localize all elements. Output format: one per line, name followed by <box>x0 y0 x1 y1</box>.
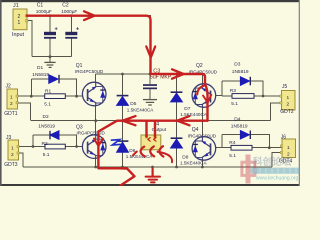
svg-text:1.5KE440CA: 1.5KE440CA <box>126 154 153 159</box>
wire red J4 pin risers <box>147 122 156 137</box>
svg-text:C2: C2 <box>62 3 69 9</box>
ground below C3 <box>143 100 157 105</box>
svg-text:Q2: Q2 <box>196 63 203 69</box>
connector J1 <box>12 3 28 38</box>
svg-text:D7: D7 <box>184 106 190 112</box>
svg-text:D8: D8 <box>182 154 188 160</box>
red arrow on mid bus right <box>177 116 190 125</box>
svg-text:IRG4PC50UD: IRG4PC50UD <box>75 69 104 74</box>
resistor R1 <box>44 89 65 108</box>
svg-text:1: 1 <box>18 20 21 26</box>
node ground tap junction <box>49 55 52 58</box>
svg-text:1.5KE440CA: 1.5KE440CA <box>180 112 207 117</box>
red arrow on mid bus left <box>123 116 136 125</box>
svg-text:R2: R2 <box>42 141 48 147</box>
wire Q2 emitter lead <box>201 107 203 121</box>
TVS diode D8 <box>171 137 208 165</box>
node C2 top junction <box>70 14 73 17</box>
svg-text:GDT3: GDT3 <box>4 162 18 168</box>
svg-text:IRG4PC50UD: IRG4PC50UD <box>77 131 106 136</box>
node Q3 emitter rail junction <box>94 166 97 169</box>
svg-text:D2: D2 <box>43 114 49 120</box>
resistor R3 <box>230 88 254 107</box>
svg-text:5.1: 5.1 <box>44 102 51 108</box>
svg-text:1000µF: 1000µF <box>36 9 52 14</box>
red arrow inside Q3 <box>94 139 103 147</box>
wire C3 top stub <box>149 74 151 84</box>
svg-text:D4: D4 <box>234 116 240 122</box>
wire C2 stubs <box>70 16 72 57</box>
svg-text:2: 2 <box>287 102 290 108</box>
svg-text:科创论坛: 科创论坛 <box>253 156 292 168</box>
svg-text:1.5KE440CA: 1.5KE440CA <box>127 108 154 113</box>
svg-text:J2: J2 <box>6 84 12 90</box>
blue annotation zigzag near D6 <box>111 140 121 145</box>
wire red top bus <box>27 16 151 74</box>
svg-text:5.1: 5.1 <box>231 101 238 107</box>
svg-text:1N5819: 1N5819 <box>38 123 55 129</box>
watermark logo kechuang <box>242 155 255 184</box>
svg-text:1N5819: 1N5819 <box>232 69 249 75</box>
node D1-R1 right junction <box>75 95 78 98</box>
wire Q3 emitter lead <box>95 158 97 167</box>
red arrow on down bus <box>146 47 155 58</box>
wire R2 to Q3 gate <box>65 146 82 148</box>
diode D4 1N5819 <box>231 116 251 139</box>
svg-text:1N5819: 1N5819 <box>32 72 49 78</box>
svg-text:1: 1 <box>287 95 290 101</box>
red arrow inside Q2 <box>203 95 211 103</box>
resistor R2 <box>42 141 66 158</box>
red arrow on top bus <box>84 11 95 20</box>
wire J6 pin 2 to bottom rail <box>272 153 282 168</box>
svg-text:Q4: Q4 <box>192 127 199 133</box>
wire ground stub bottom center <box>152 167 154 171</box>
wire Q4 emitter lead <box>201 160 203 167</box>
node C3 rail junction <box>149 73 152 76</box>
wire J3 pin 1 to R2 <box>19 146 46 148</box>
wire red mid bus to Q3 <box>98 121 207 186</box>
wire Q1 emitter lead <box>95 105 97 121</box>
red marks inside J4 <box>148 138 156 142</box>
capacitor C2 <box>61 3 80 39</box>
diode D3 1N5819 <box>232 62 251 86</box>
node D5 top rail junction <box>121 73 124 76</box>
svg-text:D5: D5 <box>130 101 136 107</box>
wire Q2 gate network <box>216 81 282 96</box>
node D1-R1 left junction <box>30 95 33 98</box>
node Q1-Q3 mid junction <box>94 119 97 122</box>
wire red rail to Q2 <box>151 74 208 121</box>
TVS diode D6 <box>117 140 154 159</box>
transistor Q1 IRG4PC50UD <box>82 82 106 106</box>
wire D7 leads <box>176 74 178 121</box>
svg-text:1: 1 <box>287 145 290 151</box>
wire D1 branch <box>31 79 76 96</box>
svg-text:R1: R1 <box>45 89 51 95</box>
node Q2-Q4 mid junction <box>201 119 204 122</box>
svg-text:R3: R3 <box>230 88 236 94</box>
connector J4 Output <box>141 122 167 150</box>
wire Q4 gate network <box>215 135 282 148</box>
sheet background <box>0 0 300 186</box>
wire D1 branch riser left <box>30 79 32 96</box>
wire Q2 collector lead <box>201 74 203 84</box>
svg-text:5uF MKP: 5uF MKP <box>150 75 172 81</box>
svg-text:D3: D3 <box>234 62 240 68</box>
node D7 top rail junction <box>175 73 178 76</box>
red arrow toward Q2 <box>172 69 184 78</box>
svg-text:J6: J6 <box>281 134 287 140</box>
node C1 top junction <box>49 14 52 17</box>
wire D6 leads <box>122 121 124 167</box>
svg-text:R4: R4 <box>229 140 235 146</box>
wire J3 pin 2 to bottom rail <box>19 153 24 167</box>
svg-text:D1: D1 <box>37 65 43 71</box>
capacitor C3 5uF MKP <box>143 68 172 89</box>
node ground rail junction <box>151 166 154 169</box>
svg-text:1N5819: 1N5819 <box>231 124 248 130</box>
svg-text:GDT2: GDT2 <box>280 109 294 115</box>
wire Q4 collector lead <box>201 121 203 138</box>
node D7-D8 mid junction <box>175 119 178 122</box>
TVS diode D7 <box>171 91 208 117</box>
wire bottom rail <box>23 166 272 168</box>
svg-text:IRG4PC50UD: IRG4PC50UD <box>188 133 217 138</box>
node D6 rail junction <box>121 166 124 169</box>
diode D1 1N5819 <box>32 65 59 83</box>
node R4-D4 right junction <box>268 146 271 149</box>
wire J2 pin 1 to R1 <box>17 95 45 97</box>
connector J2 <box>4 84 18 117</box>
connector J3 <box>4 135 19 168</box>
node Q4 emitter rail junction <box>201 166 204 169</box>
wire J4 pin risers <box>147 121 156 135</box>
node R3-D3 right junction <box>262 95 265 98</box>
red ground at bridge bottom <box>152 169 154 177</box>
wire mid-right output bus <box>155 120 270 122</box>
wire C3 bottom stub to ground <box>149 89 151 100</box>
svg-text:C1: C1 <box>37 3 44 9</box>
svg-text:1000µF: 1000µF <box>61 9 77 14</box>
svg-text:1: 1 <box>11 145 14 151</box>
diode D2 1N5819 <box>38 114 59 139</box>
capacitor C1 <box>36 3 59 39</box>
wire D2 branch <box>33 135 77 147</box>
wire Q1 collector lead <box>95 74 97 82</box>
ground below capacitor bus <box>44 62 55 67</box>
svg-text:1.5KE440CA: 1.5KE440CA <box>180 161 207 166</box>
node D2-R2 left junction <box>32 145 35 148</box>
TVS diode D5 <box>117 95 155 113</box>
svg-text:J1: J1 <box>13 3 19 9</box>
transistor Q3 IRG4PC50UD <box>82 135 106 159</box>
wire positive bus from J1 pin 2 to bridge <box>27 16 151 74</box>
svg-text:J3: J3 <box>6 135 12 141</box>
svg-text:2: 2 <box>10 101 13 107</box>
transistor Q2 IRG4PC50UD <box>192 84 216 108</box>
svg-text:www.kechuang.org: www.kechuang.org <box>256 176 298 182</box>
svg-text:1: 1 <box>10 94 13 100</box>
wire D5 leads <box>122 74 124 121</box>
node D5-D6 mid junction <box>121 119 124 122</box>
resistor R4 <box>229 140 252 159</box>
wire J5 pin 2 to mid bus <box>270 103 281 121</box>
wire J1 pin 1 negative <box>27 21 32 57</box>
svg-text:Input: Input <box>12 32 24 38</box>
wire mid-left output bus <box>31 120 147 122</box>
svg-text:2: 2 <box>11 152 14 158</box>
connector J6 <box>279 134 296 164</box>
svg-text:J5: J5 <box>282 84 288 90</box>
wire R1 to Q1 gate <box>65 95 83 97</box>
transistor Q4 IRG4PC50UD <box>192 137 216 161</box>
wire top rail <box>96 73 203 75</box>
red highlighted current path overlay <box>27 11 211 185</box>
node D8 rail junction <box>175 166 178 169</box>
wire C1 stubs <box>49 16 51 57</box>
wire ground stub near C1 <box>49 57 51 63</box>
svg-text:5.1: 5.1 <box>43 152 50 158</box>
wire Q3 collector lead <box>95 121 97 135</box>
wire D2 branch riser left <box>32 135 34 147</box>
connector J5 <box>280 84 295 115</box>
red chevron arrows toward output <box>133 152 137 156</box>
node D2-R2 right junction <box>75 145 78 148</box>
svg-text:GDT1: GDT1 <box>4 111 18 117</box>
red hook inside Q2 <box>197 86 204 95</box>
wire J2 pin 2 to mid bus <box>17 103 31 121</box>
wire D8 leads <box>176 121 178 167</box>
svg-text:5.1: 5.1 <box>229 153 236 159</box>
watermark teal band <box>251 168 301 174</box>
wire capacitor bottom bus <box>32 56 71 58</box>
